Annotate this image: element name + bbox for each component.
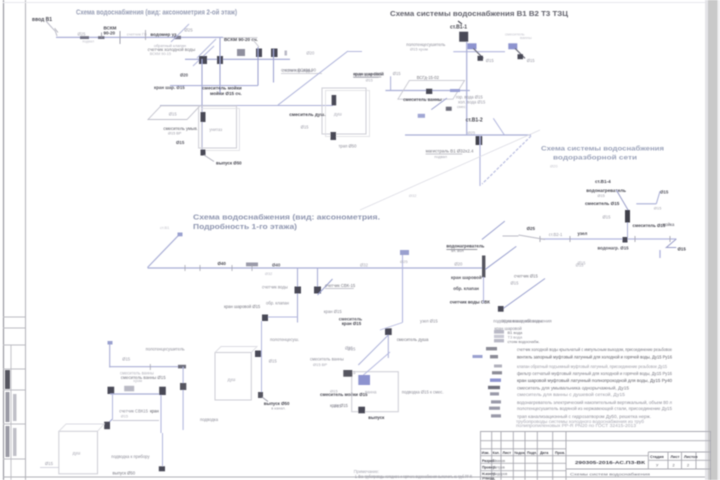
- frame bottom line: [3, 476, 705, 478]
- svg-text:Условные обозначения: Условные обозначения: [502, 319, 552, 324]
- svg-text:душ: душ: [73, 451, 82, 456]
- legend long row 1: [486, 347, 497, 350]
- node K3: [256, 49, 262, 58]
- svg-text:Ø15: Ø15: [345, 346, 354, 351]
- fitting gray on main line: [246, 263, 258, 267]
- long diagonal D1 to 2nd floor: [278, 51, 348, 105]
- svg-text:выпуск Ø50: выпуск Ø50: [113, 471, 136, 476]
- tick below zigzag: [659, 250, 661, 258]
- riser x183 down: [182, 367, 184, 430]
- node K2: [217, 56, 223, 64]
- vertical x112.5 down: [112, 394, 114, 419]
- wire diagonal into node K1: [193, 46, 214, 66]
- svg-text:кран шаровой муфтовый латунный: кран шаровой муфтовый латунный полнопрох…: [517, 378, 673, 383]
- riser x162.5 lower: [162, 433, 164, 466]
- tick top: [108, 341, 113, 345]
- tick: [199, 265, 201, 271]
- legend long row 2: [473, 355, 483, 358]
- legend long row 6: [488, 386, 500, 389]
- svg-text:Ø15: Ø15: [660, 190, 669, 195]
- small dark blob: [446, 107, 452, 111]
- svg-text:Ø25: Ø25: [184, 28, 193, 33]
- svg-text:счетчик воды: счетчик воды: [262, 285, 288, 290]
- tick: [184, 265, 186, 271]
- inlet diagonal riser: [148, 234, 181, 268]
- svg-text:водонагр. Ø15: водонагр. Ø15: [598, 246, 630, 251]
- marks at its top: [400, 250, 409, 255]
- node at box D top-left: [343, 370, 352, 377]
- valve bar below line: [476, 136, 483, 145]
- svg-text:ВСКМ 90-15: ВСКМ 90-15: [150, 52, 171, 56]
- svg-text:душ: душ: [228, 377, 237, 382]
- riser x317.5: [317, 268, 319, 290]
- svg-text:Петров: Петров: [493, 466, 505, 470]
- svg-text:ст.В1-4: ст.В1-4: [595, 179, 611, 184]
- svg-text:Ø15: Ø15: [598, 194, 605, 198]
- svg-text:Ø15: Ø15: [333, 404, 342, 409]
- svg-text:выпуск Ø50: выпуск Ø50: [264, 401, 290, 406]
- svg-text:душ: душ: [334, 112, 343, 117]
- riser continue down: [483, 277, 485, 303]
- pipe: horizontal H1 y59: [185, 58, 290, 60]
- h line 6: [480, 470, 566, 472]
- tick: [634, 236, 636, 242]
- node box A corner: [104, 422, 110, 430]
- node on it: [426, 89, 432, 94]
- svg-text:стояк водоснабж.: стояк водоснабж.: [508, 339, 540, 344]
- svg-text:Схемы систем водоснабжения: Схемы систем водоснабжения: [570, 472, 650, 477]
- pipe horizontal y90.5: [385, 90, 469, 92]
- legend long row 7: [490, 392, 499, 395]
- svg-text:ввод В1: ввод В1: [32, 17, 52, 23]
- pipe horizontal y135: [405, 134, 531, 136]
- svg-text:водомер уз.: водомер уз.: [150, 32, 177, 37]
- diagonal K1 to line end: [197, 39, 216, 58]
- node at box D bottom: [358, 407, 365, 414]
- h line right part: [566, 468, 711, 470]
- svg-text:Стадия: Стадия: [650, 455, 664, 459]
- tick: [669, 236, 671, 242]
- diagonal from riser up-right: [485, 246, 516, 269]
- svg-text:смеситель Ø15: смеситель Ø15: [633, 223, 666, 228]
- svg-text:стояк гор.воды: стояк гор.воды: [282, 68, 312, 73]
- h line 2: [480, 440, 711, 442]
- node bottom: [258, 392, 263, 398]
- valve bar in box E: [332, 95, 337, 105]
- diagonal lower: [500, 279, 545, 311]
- svg-text:водонагреватель: водонагреватель: [586, 188, 626, 193]
- diagonal from sq1: [473, 48, 483, 58]
- small line left of box A: [40, 467, 59, 469]
- left margin vertical text block: [5, 370, 17, 457]
- pipe horizontal y85.6: [170, 85, 258, 87]
- fitting dark on inlet line 2: [98, 36, 105, 39]
- riser V2: [219, 38, 221, 93]
- tick: [569, 236, 571, 242]
- outlet diagonal: [204, 155, 214, 162]
- riser V1: [201, 59, 203, 152]
- zigzag right end: [666, 239, 676, 248]
- svg-text:Ø15: Ø15: [45, 461, 54, 466]
- svg-text:вентиль запорный муфтовый лату: вентиль запорный муфтовый латунный для х…: [517, 354, 673, 359]
- svg-text:счетчик СВК-15: счетчик СВК-15: [325, 283, 356, 288]
- riser x261.5 down: [261, 321, 263, 393]
- small riser: [390, 76, 392, 91]
- riser V3: [257, 47, 259, 86]
- valve dark bar on V5: [201, 112, 206, 122]
- tick at inlet bend: [55, 28, 58, 32]
- svg-text:Ø15: Ø15: [122, 357, 131, 362]
- svg-text:счетчик воды СВК: счетчик воды СВК: [450, 299, 490, 304]
- node on V5 bottom: [201, 150, 206, 156]
- svg-text:2: 2: [687, 464, 689, 468]
- riser x161 down: [160, 395, 162, 433]
- svg-text:Ø25: Ø25: [527, 226, 536, 231]
- diagonal from node up-right: [318, 279, 333, 295]
- node on line: [623, 237, 628, 243]
- faint construction diagonal: [360, 130, 540, 210]
- legend long row 10: [491, 414, 501, 417]
- svg-text:счетчик Ø15: счетчик Ø15: [514, 274, 538, 279]
- svg-text:Ø15: Ø15: [527, 58, 536, 63]
- svg-text:ст.В1: ст.В1: [160, 225, 170, 230]
- svg-text:Схема водоснабжения (вид: аксо: Схема водоснабжения (вид: аксонометрия 2…: [76, 9, 237, 17]
- svg-text:Схема системы водоснабжения: Схема системы водоснабжения: [541, 145, 664, 153]
- svg-text:мойка: мойка: [663, 222, 675, 227]
- horizontal y420.5: [113, 420, 160, 422]
- branch horizontal y317: [268, 316, 298, 318]
- svg-text:кран шаровой: кран шаровой: [451, 275, 482, 280]
- legend long row 4: [492, 371, 502, 374]
- legend long row 8: [491, 400, 501, 403]
- node K1: [199, 56, 207, 64]
- valve tick: [119, 31, 121, 44]
- svg-text:Ø15: Ø15: [654, 206, 662, 211]
- svg-text:Ø15: Ø15: [576, 263, 585, 268]
- svg-text:полотенцесуш.: полотенцесуш.: [270, 337, 299, 342]
- box G (sanitary unit): [199, 106, 237, 148]
- svg-text:обр. клапан: обр. клапан: [266, 301, 290, 306]
- svg-text:смеситель ванны: смеситель ванны: [310, 357, 344, 362]
- svg-text:Пров.: Пров.: [555, 451, 565, 455]
- svg-text:1. Все трубопроводы холодного: 1. Все трубопроводы холодного и горячего…: [355, 474, 472, 479]
- svg-text:ванна: ванна: [365, 390, 377, 395]
- node at box E bottom: [331, 132, 337, 140]
- svg-text:Схема водоснабжения (вид: аксо: Схема водоснабжения (вид: аксонометрия.: [193, 214, 380, 222]
- valve node B1-1 top: [459, 32, 468, 42]
- box C: [215, 353, 251, 401]
- pipe horizontal y203.75: [636, 203, 656, 205]
- svg-text:Ø15: Ø15: [269, 359, 278, 364]
- svg-text:кран шаровой: кран шаровой: [353, 71, 384, 76]
- tick at its top: [178, 233, 183, 237]
- svg-text:Ø15 ВР: Ø15 ВР: [313, 362, 327, 367]
- svg-text:счетчик СВК15: счетчик СВК15: [119, 409, 148, 414]
- parallelogram F floor symbol: [398, 80, 465, 99]
- svg-text:Лист: Лист: [503, 451, 512, 455]
- svg-text:подвал: подвал: [434, 155, 447, 159]
- legend long row 9: [489, 407, 500, 410]
- frame top line: [3, 2, 705, 4]
- riser x297.5: [297, 268, 299, 323]
- legend long row 3: [494, 365, 502, 368]
- tick above: [458, 21, 462, 24]
- pipe: main horizontal y268: [148, 267, 486, 269]
- svg-text:Ø20: Ø20: [180, 73, 189, 78]
- valve node on it: [314, 287, 321, 294]
- svg-text:Ø15: Ø15: [603, 215, 612, 220]
- node at its left: [262, 315, 268, 322]
- blue node sq1: [468, 43, 477, 49]
- B2 cluster: diagonal up-right: [482, 221, 505, 239]
- svg-text:90-20: 90-20: [104, 31, 116, 36]
- diagonal to box A node: [106, 419, 113, 425]
- box A: [59, 431, 98, 474]
- svg-text:ст.В1-1: ст.В1-1: [450, 25, 467, 31]
- pipe lower horizontal y239: [540, 238, 676, 240]
- tick: [231, 265, 233, 271]
- svg-text:Схема системы водоснабжения В1: Схема системы водоснабжения В1 В2 Т3 ТЗЦ: [390, 10, 569, 18]
- svg-text:Ø32: Ø32: [265, 272, 272, 276]
- legend short row 3: [494, 339, 504, 342]
- right vertical x402.5: [402, 250, 404, 323]
- tick: [149, 364, 151, 370]
- svg-text:Подробность 1-го этажа): Подробность 1-го этажа): [193, 223, 297, 231]
- blue node sq2: [508, 43, 517, 49]
- svg-text:Ø15: Ø15: [366, 79, 373, 83]
- svg-text:подводка: подводка: [200, 417, 219, 422]
- svg-text:обр. клапан: обр. клапан: [453, 286, 479, 291]
- connection to scheme3 line: [519, 235, 545, 240]
- svg-text:ст.В2-1: ст.В2-1: [549, 232, 563, 237]
- svg-text:2: 2: [673, 464, 675, 468]
- svg-text:в канал.: в канал.: [271, 407, 285, 411]
- svg-text:Ø20: Ø20: [454, 262, 463, 267]
- svg-text:Ø40: Ø40: [218, 261, 227, 266]
- wire: riser diagonal up: [171, 24, 189, 42]
- svg-text:трап Ø50: трап Ø50: [339, 144, 358, 149]
- dark segment at right: [178, 365, 186, 369]
- svg-text:узел Ø15: узел Ø15: [420, 319, 438, 324]
- svg-text:ванны: ванны: [520, 35, 532, 40]
- node on line: [174, 36, 181, 39]
- svg-text:узел: узел: [578, 231, 588, 236]
- title block left edge: [480, 432, 482, 480]
- blue patch on y90.5 line: [450, 89, 460, 92]
- legend short row 2: [494, 335, 504, 338]
- svg-text:Ø32: Ø32: [409, 193, 417, 198]
- diagonal up right: [656, 191, 660, 204]
- tick right of K4: [285, 51, 288, 56]
- svg-text:мойки Ø15 сч.: мойки Ø15 сч.: [210, 90, 242, 96]
- svg-text:Ø15: Ø15: [511, 281, 520, 286]
- svg-text:290305-2016-АС.ПЗ-ВК: 290305-2016-АС.ПЗ-ВК: [575, 460, 645, 466]
- label d15 on line: [124, 386, 134, 392]
- svg-text:Ø20: Ø20: [306, 51, 315, 56]
- legend long row 5: [490, 379, 501, 382]
- pipe horizontal y366.7: [110, 366, 183, 368]
- svg-text:подвал: подвал: [82, 40, 94, 44]
- riser from valve: [627, 223, 629, 238]
- valve tick 2: [145, 30, 147, 40]
- svg-text:хол. вода Ø15: хол. вода Ø15: [458, 100, 486, 105]
- box E double outline: [322, 88, 366, 134]
- node above box D: [385, 328, 392, 335]
- node on it: [498, 306, 504, 312]
- h line 3 header top: [480, 448, 566, 450]
- node d1: [478, 56, 484, 61]
- svg-text:смеситель для ванны с душевой: смеситель для ванны с душевой сеткой, Ду…: [517, 392, 626, 397]
- v lines left columns: [491, 432, 493, 480]
- svg-text:полипропиленовых PP-R PN20 по: полипропиленовых PP-R PN20 по ГОСТ 32415…: [516, 423, 637, 428]
- svg-text:смеситель душа: смеситель душа: [397, 337, 429, 342]
- pipe: main inlet horizontal B1: [56, 36, 223, 38]
- node gray: [237, 49, 245, 56]
- box top edge with label: [223, 37, 258, 39]
- funnel diagonal: [482, 136, 531, 184]
- svg-text:Ø15: Ø15: [393, 71, 402, 76]
- svg-text:счетчик холодной воды крыльчат: счетчик холодной воды крыльчатый с импул…: [517, 347, 673, 352]
- node on riser: [180, 383, 186, 390]
- svg-text:Ø15 хром: Ø15 хром: [410, 47, 428, 52]
- pipe horizontal y394: [110, 393, 159, 395]
- svg-text:Ø15: Ø15: [678, 247, 687, 252]
- svg-text:Ø15 ВР: Ø15 ВР: [168, 132, 182, 136]
- riser B1-1 vertical: [466, 42, 468, 135]
- node above box C: [255, 351, 261, 358]
- svg-text:Ø25: Ø25: [400, 259, 408, 264]
- sheet outer border left: [3, 0, 5, 480]
- wire: inlet step diagonal: [46, 21, 57, 36]
- svg-text:Сидоров: Сидоров: [493, 472, 507, 476]
- svg-text:Ø15: Ø15: [330, 389, 338, 394]
- svg-text:Дата: Дата: [540, 451, 549, 455]
- svg-text:эл. 80л: эл. 80л: [451, 249, 464, 253]
- svg-text:Листов: Листов: [684, 455, 698, 459]
- node right: [159, 387, 166, 395]
- valve dark bar: [625, 210, 630, 223]
- tick above line: [101, 33, 103, 39]
- box A top face: [59, 424, 104, 431]
- svg-text:выпуск Ø50: выпуск Ø50: [216, 161, 242, 166]
- svg-text:смеситель мойки Ø15: смеситель мойки Ø15: [320, 392, 368, 397]
- svg-text:Ø15: Ø15: [176, 140, 185, 145]
- gray marks: [503, 235, 519, 237]
- scan shadow right edge: [708, 0, 718, 480]
- blue bits below: [418, 114, 425, 118]
- svg-text:водонагреватель: водонагреватель: [446, 244, 484, 249]
- svg-text:смеситель душ.: смеситель душ.: [289, 112, 325, 117]
- svg-text:ВСКМ 90-20 сч.: ВСКМ 90-20 сч.: [224, 37, 258, 42]
- box D: [352, 372, 399, 412]
- svg-text:Лист: Лист: [671, 455, 680, 459]
- diagonal small: [431, 98, 447, 110]
- valve bar riser B2: [482, 256, 485, 278]
- node d2: [518, 54, 524, 59]
- svg-text:кран Ø15: кран Ø15: [324, 309, 343, 314]
- svg-text:Ø15: Ø15: [169, 112, 178, 117]
- svg-text:Подп.: Подп.: [527, 451, 537, 455]
- riser V4: [273, 49, 275, 83]
- svg-text:смеситель умыв.: смеситель умыв.: [163, 126, 198, 131]
- h line 4: [480, 455, 648, 457]
- diagonal from sq2: [515, 48, 525, 58]
- riser down: [479, 136, 481, 186]
- title block right edge: [710, 432, 712, 480]
- svg-text:смеситель ванны Ø15: смеситель ванны Ø15: [121, 375, 166, 380]
- svg-text:водоразборной сети: водоразборной сети: [553, 154, 637, 162]
- svg-text:хром: хром: [133, 379, 142, 383]
- box corner diagonal: [253, 40, 259, 47]
- left branch: riser x109.7: [109, 343, 111, 368]
- svg-text:Кол.: Кол.: [493, 451, 500, 455]
- svg-text:Иванов: Иванов: [493, 459, 505, 463]
- pipe horizontal y105.5 long: [160, 105, 333, 107]
- valve node on it: [295, 287, 302, 294]
- svg-text:№док.: №док.: [515, 451, 526, 455]
- diagonal out: [262, 397, 268, 402]
- svg-text:магистраль В1 Ø32х2.4: магистраль В1 Ø32х2.4: [426, 149, 474, 154]
- tick: [251, 265, 253, 271]
- tick left end: [539, 236, 541, 242]
- svg-text:Ø15: Ø15: [301, 125, 310, 130]
- svg-text:полотенцесушитель водяной из н: полотенцесушитель водяной из нержавеющей…: [517, 406, 673, 411]
- box C top face: [215, 347, 257, 353]
- left margin column cells: [3, 317, 25, 480]
- short horizontal at D1 top: [348, 51, 362, 53]
- svg-text:смеситель Ø15: смеситель Ø15: [585, 201, 620, 206]
- svg-text:Ø20: Ø20: [550, 164, 558, 169]
- svg-text:фильтр сетчатый муфтовый латун: фильтр сетчатый муфтовый латунный для хо…: [517, 371, 673, 376]
- svg-text:подводка Ø15 к смес.: подводка Ø15 к смес.: [402, 390, 444, 395]
- node K4: [271, 49, 278, 58]
- frame inner line left: [25, 0, 27, 480]
- diagonal at its bottom: [380, 323, 403, 331]
- node left: [108, 387, 115, 394]
- svg-text:Ø15: Ø15: [121, 415, 128, 419]
- svg-text:счетчик ГВ: счетчик ГВ: [127, 32, 147, 37]
- svg-text:Ø32: Ø32: [360, 263, 369, 268]
- svg-text:Изм.: Изм.: [482, 451, 490, 455]
- X diagonals above box D: [358, 335, 388, 365]
- svg-text:смеситель для умывальника одно: смеситель для умывальника однорычажный, …: [517, 385, 630, 390]
- parallelogram P1 floor symbol: [148, 106, 200, 120]
- diagonal top right: [493, 118, 504, 135]
- svg-text:подводка к прибору: подводка к прибору: [111, 454, 150, 459]
- svg-text:кран: кран: [150, 409, 159, 414]
- fitting dark on inlet line: [80, 36, 89, 39]
- svg-text:смес.: смес.: [457, 105, 467, 109]
- svg-text:смеситель ванны: смеситель ванны: [403, 97, 442, 102]
- svg-text:выпуск: выпуск: [368, 415, 385, 420]
- svg-text:ВСГд-15-02: ВСГд-15-02: [417, 75, 440, 80]
- svg-text:Утверд.: Утверд.: [482, 477, 495, 480]
- diagonal to node: [616, 190, 629, 211]
- svg-text:ст.В1-2: ст.В1-2: [466, 118, 483, 124]
- pipe short horizontal y51.7: [453, 51, 505, 53]
- svg-text:Ø25: Ø25: [78, 32, 87, 37]
- svg-text:клапан обратный подъемный муфт: клапан обратный подъемный муфтовый латун…: [517, 364, 668, 369]
- svg-text:водонагреватель электрический: водонагреватель электрический накопитель…: [517, 400, 673, 405]
- legend short row 1: [494, 330, 504, 334]
- v lines right cells: [647, 452, 649, 469]
- svg-text:кран шаровой Ø15: кран шаровой Ø15: [224, 304, 261, 309]
- h line 5: [480, 462, 566, 464]
- svg-text:кран Ø15: кран Ø15: [342, 321, 362, 326]
- node on riser x161 bottom: [159, 466, 165, 471]
- title block outer top: [480, 431, 711, 433]
- svg-text:Ø40: Ø40: [272, 262, 281, 267]
